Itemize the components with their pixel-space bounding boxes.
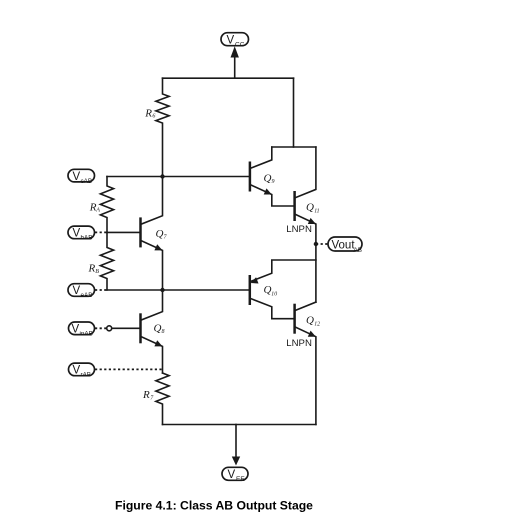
wire top right link bbox=[272, 146, 316, 148]
arrow VCC bbox=[231, 46, 239, 57]
svg-text:EE: EE bbox=[236, 476, 245, 483]
svg-text:V: V bbox=[73, 228, 81, 240]
transistor Q10 collector bbox=[250, 298, 295, 319]
svg-text:B: B bbox=[95, 269, 99, 275]
arrow Q10 emitter (PNP, points to bar) bbox=[251, 277, 259, 283]
svg-text:V: V bbox=[228, 469, 236, 481]
svg-text:CC: CC bbox=[235, 41, 245, 48]
svg-text:LNPN: LNPN bbox=[286, 224, 312, 235]
svg-text:Q: Q bbox=[306, 201, 314, 213]
node Vout junction bbox=[314, 242, 318, 246]
svg-text:eAB: eAB bbox=[81, 292, 93, 299]
svg-text:V: V bbox=[73, 171, 81, 183]
node VeAB junction bbox=[160, 288, 164, 292]
svg-text:R: R bbox=[142, 389, 150, 401]
transistor Q10 bar bbox=[249, 275, 252, 305]
transistor Q9 bar bbox=[249, 162, 252, 192]
wire dashed VbAB bbox=[95, 231, 107, 233]
svg-text:V: V bbox=[227, 34, 235, 46]
wire dashed Vout bbox=[316, 243, 328, 245]
wire dashed VeAB bbox=[95, 289, 107, 291]
wire node VeAB horizontal bbox=[107, 289, 249, 291]
wire node VcAB horizontal bbox=[107, 176, 250, 178]
node VCC label box bbox=[221, 33, 249, 46]
transistor Q8 collector bbox=[141, 290, 163, 320]
transistor Q8 emitter bbox=[141, 336, 163, 373]
svg-text:12: 12 bbox=[314, 322, 320, 328]
wire top rail VCC net bbox=[163, 77, 294, 79]
arrow VEE bbox=[232, 457, 240, 466]
transistor Q7 collector bbox=[141, 177, 163, 225]
svg-text:rAB: rAB bbox=[81, 372, 92, 379]
svg-text:Q: Q bbox=[306, 314, 314, 326]
svg-text:V: V bbox=[72, 324, 80, 336]
node VcAB junction bbox=[160, 174, 164, 178]
svg-text:9: 9 bbox=[272, 179, 275, 185]
svg-text:11: 11 bbox=[314, 209, 319, 215]
label texts bbox=[72, 34, 362, 483]
wire VbAB to Q7 base bbox=[107, 231, 139, 233]
transistor Q10 emitter bbox=[250, 260, 316, 282]
svg-text:AB: AB bbox=[354, 247, 362, 254]
wire bottom rail VEE net bbox=[163, 424, 316, 426]
transistor Q9 collector bbox=[250, 147, 272, 169]
transistor Q11 collector bbox=[295, 147, 316, 198]
wire VEE stub bbox=[235, 425, 237, 458]
svg-text:V: V bbox=[73, 365, 81, 377]
svg-text:bAB: bAB bbox=[81, 235, 93, 242]
open circle at Q8 base bbox=[107, 326, 112, 331]
svg-text:LNPN: LNPN bbox=[286, 338, 312, 349]
wire Q8 base from circle bbox=[112, 327, 140, 329]
arrow Q12 emitter bbox=[308, 331, 316, 337]
junction dots bbox=[160, 174, 318, 292]
svg-text:Q: Q bbox=[264, 172, 272, 184]
transistor Q11 emitter, output column bbox=[295, 214, 316, 302]
node VoutAB label box bbox=[328, 237, 362, 251]
resistor RA bbox=[100, 177, 113, 233]
node VbAB label box bbox=[68, 226, 95, 239]
arrow Q11 emitter bbox=[308, 218, 316, 224]
svg-text:cAB: cAB bbox=[81, 178, 93, 185]
wire VCC stub bbox=[234, 57, 236, 79]
label boxes bbox=[68, 33, 362, 481]
arrow Q8 emitter bbox=[154, 340, 162, 346]
resistor RB bbox=[100, 232, 113, 290]
svg-text:Q: Q bbox=[154, 322, 162, 334]
transistor Q8 bar bbox=[139, 313, 142, 343]
transistor Q12 bar bbox=[293, 304, 296, 334]
resistor R7 bbox=[156, 373, 169, 425]
transistor bars bbox=[141, 162, 295, 344]
node VEE label box bbox=[222, 467, 248, 480]
svg-text:R: R bbox=[144, 108, 152, 120]
resistor R6 bbox=[156, 78, 169, 176]
node VinAB label box bbox=[69, 322, 95, 335]
svg-text:Q: Q bbox=[156, 228, 164, 240]
arrow Q7 emitter bbox=[154, 244, 162, 250]
arrow Q9 emitter bbox=[264, 188, 272, 194]
transistor Q7 emitter bbox=[141, 240, 163, 290]
node VeAB label box bbox=[68, 284, 95, 297]
node VrAB label box bbox=[69, 363, 95, 376]
svg-text:Q: Q bbox=[264, 284, 272, 296]
arrowheads bbox=[154, 46, 316, 465]
node VcAB label box bbox=[68, 169, 95, 182]
transistor Q12 collector diagonal bbox=[295, 302, 316, 311]
svg-text:A: A bbox=[95, 208, 100, 214]
svg-text:8: 8 bbox=[162, 329, 165, 335]
transistor Q9 emitter bbox=[250, 185, 295, 207]
svg-text:V: V bbox=[73, 285, 81, 297]
transistor Q7 bar bbox=[139, 217, 142, 247]
svg-text:Vout: Vout bbox=[332, 240, 356, 252]
svg-text:7: 7 bbox=[150, 395, 154, 401]
svg-text:6: 6 bbox=[152, 114, 155, 120]
svg-text:inAB: inAB bbox=[80, 331, 93, 338]
transistor Q12 emitter bbox=[295, 327, 316, 425]
svg-text:10: 10 bbox=[271, 292, 277, 298]
component designators (serif italic) bbox=[88, 108, 321, 402]
wire dashed VinAB bbox=[95, 327, 107, 329]
transistor Q11 bar bbox=[293, 191, 296, 221]
svg-text:Figure 4.1: Class AB Output St: Figure 4.1: Class AB Output Stage bbox=[115, 499, 313, 513]
wire dashed VrAB bbox=[95, 368, 163, 370]
wire right VCC drop bbox=[293, 78, 295, 147]
dashed label stubs bbox=[95, 232, 328, 369]
svg-text:7: 7 bbox=[164, 235, 168, 241]
